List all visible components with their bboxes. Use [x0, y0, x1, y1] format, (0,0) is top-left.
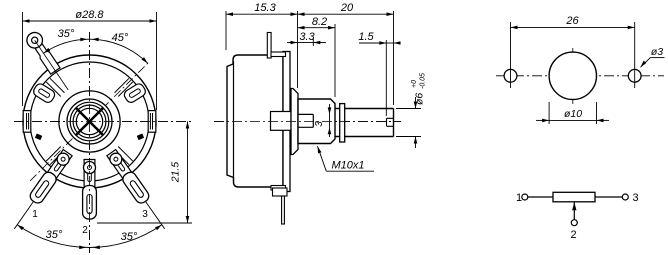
front view: crimp marks at diagonals — [115, 78, 130, 92]
front view: horizontal centerline — [14, 121, 192, 123]
svg-text:15.3: 15.3 — [254, 2, 276, 14]
front view: right ear tab with slot — [123, 82, 148, 104]
svg-text:1.5: 1.5 — [358, 31, 374, 43]
svg-text:M10x1: M10x1 — [331, 160, 364, 172]
svg-text:35°: 35° — [46, 229, 63, 241]
side view: bottom bent tab — [271, 186, 286, 191]
front view: inner rim circle — [30, 62, 149, 181]
front view: left ear tab with slot — [32, 82, 57, 104]
svg-text:1: 1 — [32, 209, 38, 220]
svg-text:-0.05: -0.05 — [420, 73, 427, 89]
dimension: diameter 10 — [548, 102, 550, 124]
side view: cover plate — [283, 52, 290, 192]
dimension: bottom angular arcs 35/35 — [17, 225, 162, 248]
svg-text:26: 26 — [565, 15, 579, 27]
dimension: shaft diameter 6 with tolerance — [396, 108, 421, 110]
svg-text:3: 3 — [314, 121, 325, 127]
schematic: terminal 2 circle — [571, 220, 577, 226]
side view: lower mounting tab — [273, 188, 288, 196]
side view: horizontal centerline — [214, 121, 401, 123]
side view: front face boss — [291, 89, 298, 155]
terminal lug 1 (front view) — [106, 149, 151, 206]
svg-text:ø6: ø6 — [414, 93, 426, 105]
svg-text:8.2: 8.2 — [312, 16, 327, 28]
front view: small notch lower-right rim — [137, 133, 144, 140]
dimension: 8.2 — [334, 24, 336, 97]
mount view: right small hole — [628, 69, 641, 82]
dimension: 15.3 — [225, 11, 227, 50]
svg-text:+0: +0 — [411, 80, 418, 88]
side view: top bent tab — [271, 52, 286, 57]
svg-text:ø28.8: ø28.8 — [75, 9, 104, 21]
front view: bushing circle 2 — [70, 102, 109, 141]
front view: 45-degree diagonal centerline — [30, 61, 150, 180]
side view: centerline redrawn over parts — [214, 121, 401, 123]
front view: shaft circle outer — [73, 105, 106, 138]
front view: outer rim circle — [23, 55, 156, 188]
dimension: 20 — [297, 11, 299, 88]
side view: threaded bushing M10 — [298, 99, 335, 144]
schematic: terminal 3 circle — [622, 194, 628, 200]
terminal lug 3 (front view) — [28, 149, 73, 206]
schematic: terminal 1 circle — [522, 194, 528, 200]
terminal lug 2 (front view) — [83, 160, 97, 220]
side view: inner shaft section — [271, 112, 292, 131]
front view: bushing circle outer — [67, 99, 112, 144]
dimension: 3.3 — [312, 38, 314, 46]
svg-text:1: 1 — [516, 192, 522, 204]
front view: locating lug at 35 deg upper-left — [24, 29, 75, 94]
side view: shaft end slot — [387, 118, 394, 126]
extension line lug 3 — [146, 202, 165, 229]
side view: shaft diameter 6 — [335, 109, 394, 137]
schematic: wire left — [528, 196, 553, 198]
schematic: wiper arrow — [572, 202, 576, 210]
svg-text:3: 3 — [142, 209, 148, 220]
svg-text:3.3: 3.3 — [299, 31, 315, 43]
svg-text:45°: 45° — [112, 32, 129, 44]
mount view: center hole diameter 10 — [549, 52, 596, 99]
svg-text:2: 2 — [82, 225, 88, 236]
svg-text:ø3: ø3 — [651, 46, 663, 58]
svg-text:20: 20 — [340, 2, 354, 14]
svg-text:ø10: ø10 — [564, 108, 582, 120]
svg-text:21.5: 21.5 — [170, 162, 182, 184]
front view: centerlines redrawn over parts — [89, 32, 91, 253]
front view: shaft circle inner — [76, 108, 102, 134]
dimension: diameter 28.8 — [22, 12, 24, 106]
side view: washer — [340, 104, 345, 142]
side view: can body — [227, 55, 283, 187]
side view: shaft flat bar 3mm — [298, 114, 313, 127]
extension line lug 1 — [14, 202, 33, 229]
side view: terminal 2 edge-on — [282, 196, 285, 224]
front view: vertical centerline — [89, 32, 91, 253]
svg-text:3: 3 — [633, 192, 639, 204]
front view: cover middle circle — [59, 91, 120, 152]
dimension: 3 shaft flat — [329, 104, 331, 114]
front view: shaft cross X — [76, 108, 103, 135]
label: diameter 3 with leader — [641, 61, 647, 68]
mount view: big circle vertical centerline — [572, 48, 574, 104]
dimension: 1.5 — [385, 40, 387, 116]
dimension: 21.5 — [97, 222, 192, 224]
side view: locating lug edge-on strip — [267, 33, 271, 59]
front view: small notch lower-left rim — [35, 133, 42, 140]
schematic: resistor body — [553, 192, 595, 202]
label: M10x1 thread with leader — [318, 146, 322, 153]
mount view: left small hole — [504, 69, 517, 82]
front view: 9 o'clock side bump — [23, 111, 31, 133]
svg-text:35°: 35° — [58, 28, 75, 40]
mount view: horizontal centerline — [496, 75, 664, 77]
dimension: 26 — [510, 22, 512, 88]
svg-text:35°: 35° — [121, 231, 138, 243]
dimension: angular 35/45 arc — [43, 39, 147, 63]
svg-text:2: 2 — [570, 229, 576, 241]
front view: 3 o'clock side bump — [148, 111, 156, 133]
schematic: wire right — [595, 196, 622, 198]
